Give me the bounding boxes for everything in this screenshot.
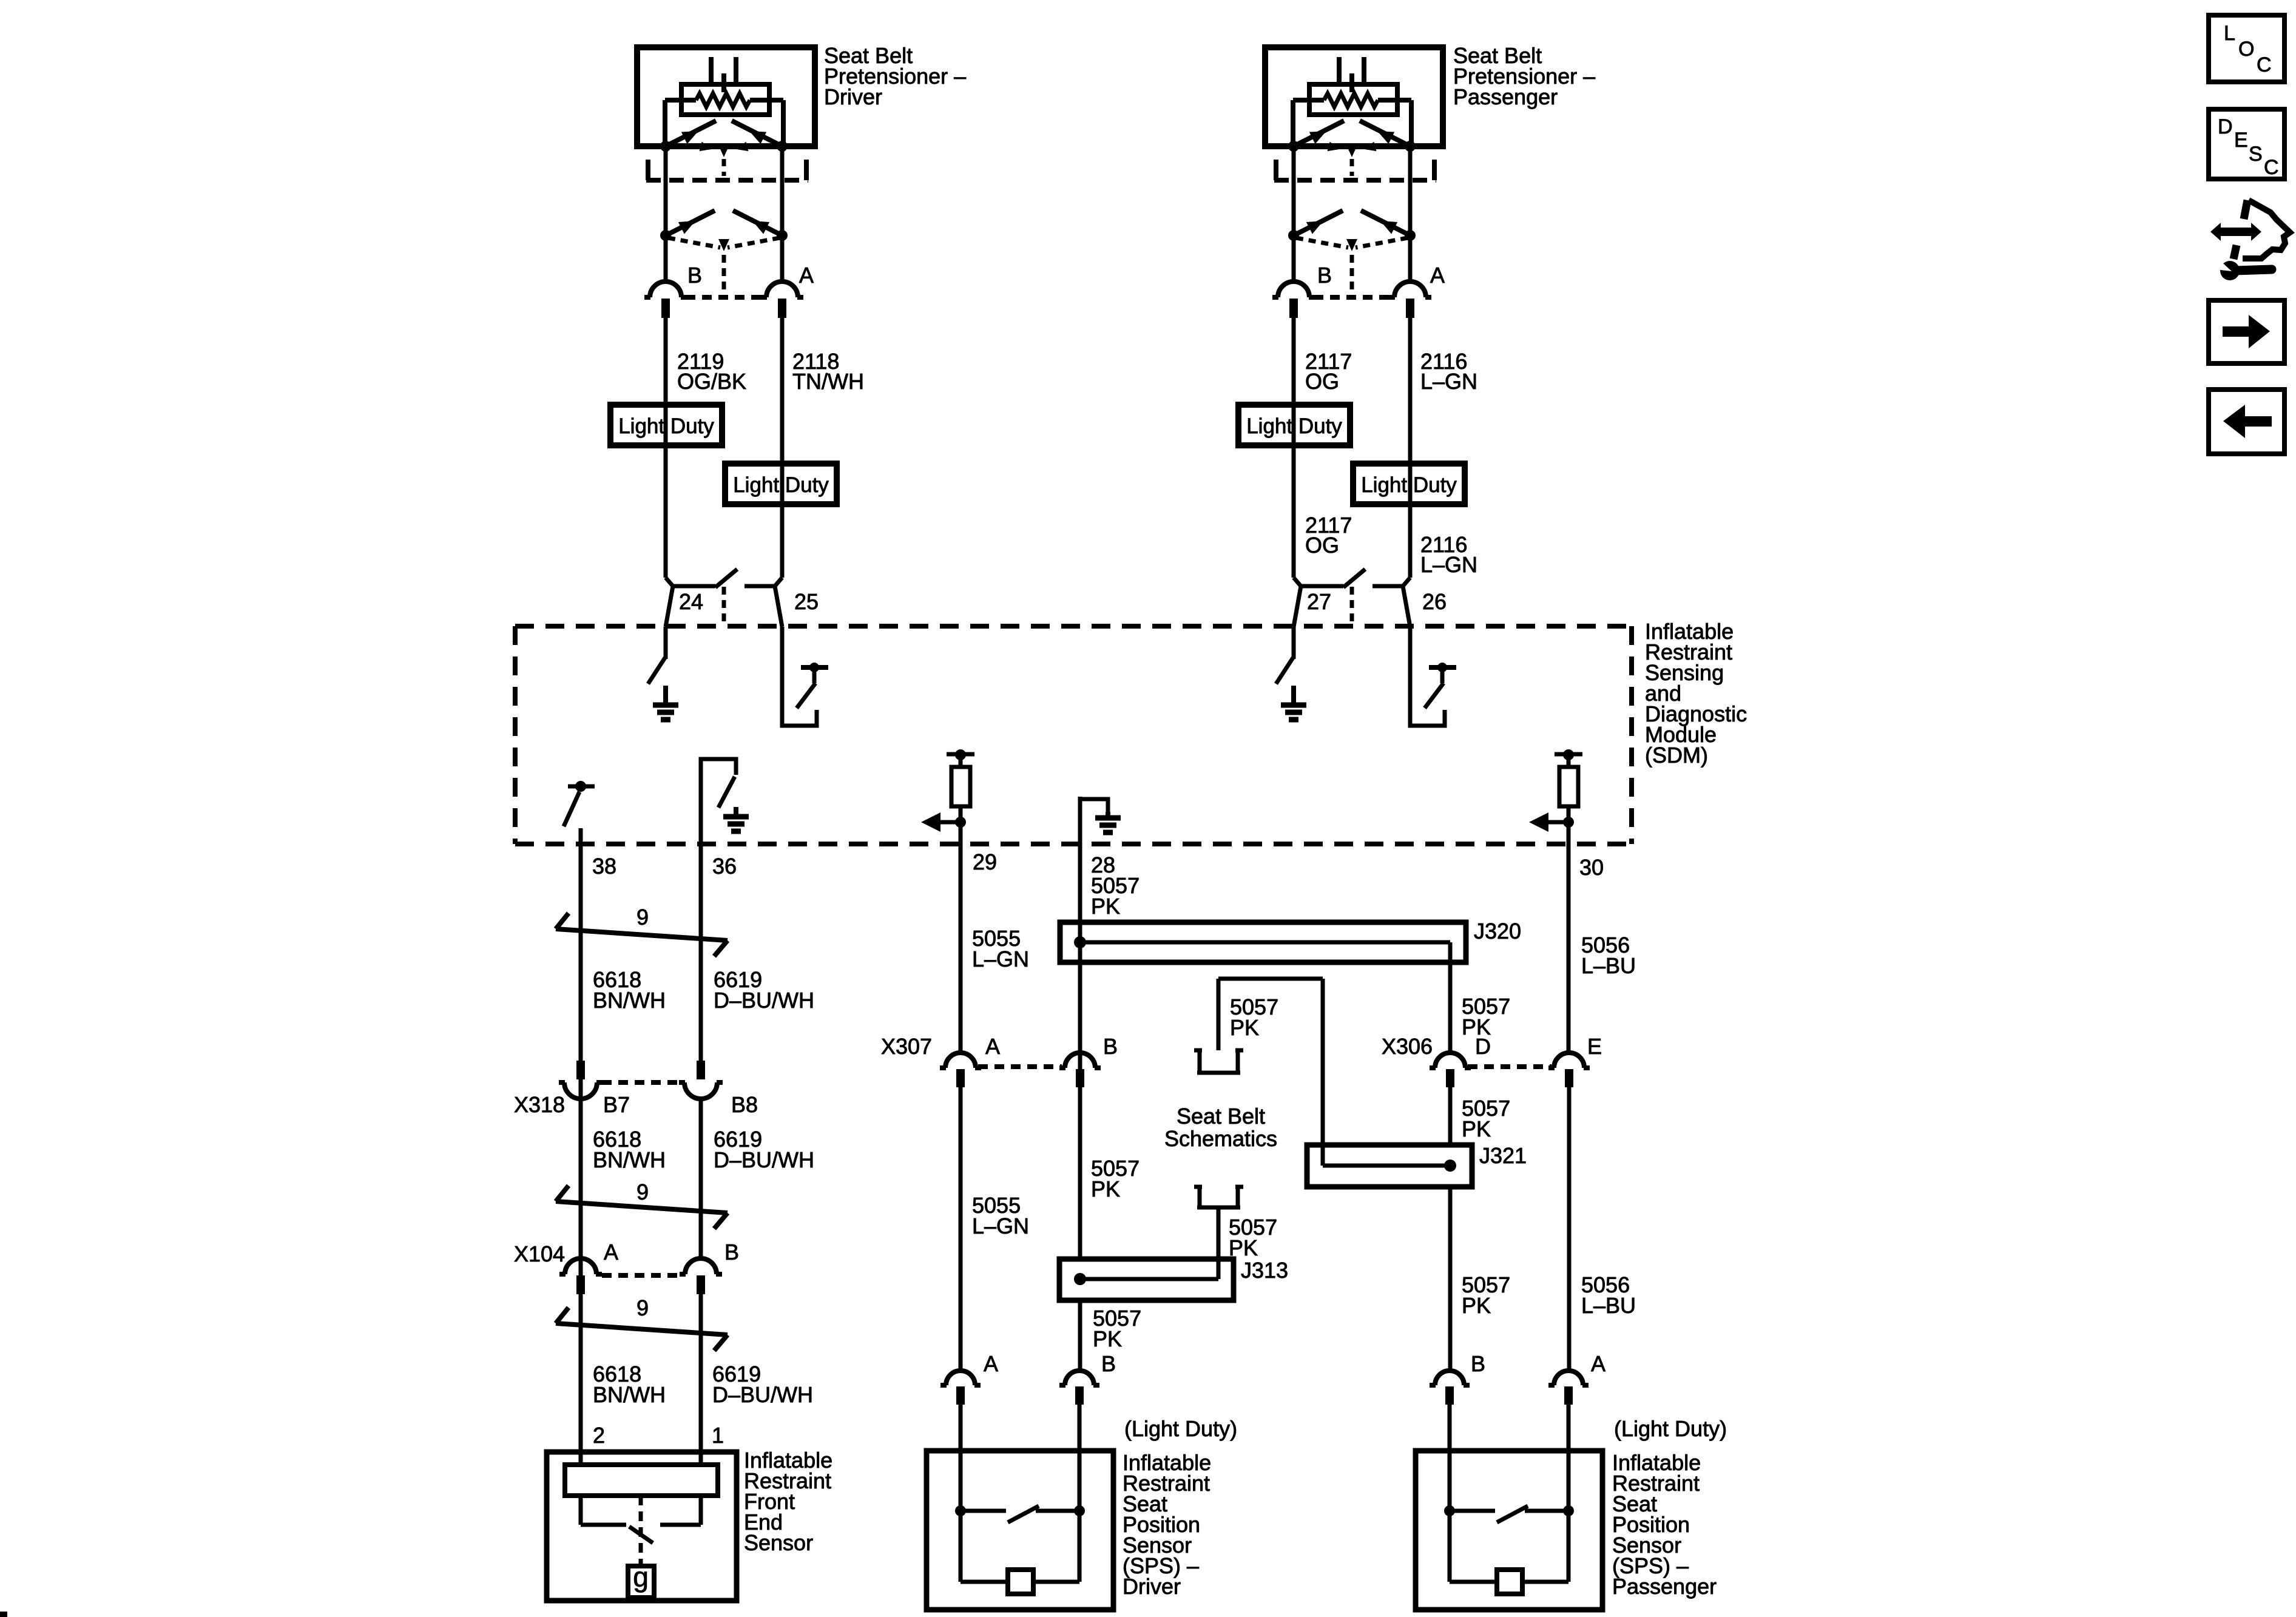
svg-text:TN/WH: TN/WH	[792, 369, 864, 394]
svg-text:9: 9	[636, 1180, 649, 1204]
svg-text:L–GN: L–GN	[972, 1214, 1029, 1238]
svg-text:B: B	[1103, 1034, 1118, 1059]
svg-text:A: A	[604, 1240, 618, 1264]
svg-text:B7: B7	[603, 1092, 630, 1117]
svg-text:Light Duty: Light Duty	[1246, 414, 1342, 438]
svg-text:C: C	[2264, 156, 2279, 179]
svg-text:Seat Belt: Seat Belt	[1177, 1104, 1265, 1129]
svg-text:J321: J321	[1479, 1143, 1527, 1168]
svg-text:O: O	[2238, 38, 2254, 61]
svg-text:D–BU/WH: D–BU/WH	[714, 1147, 814, 1172]
svg-text:J320: J320	[1474, 919, 1521, 944]
svg-text:(SDM): (SDM)	[1645, 743, 1708, 768]
svg-text:E: E	[2234, 129, 2248, 152]
svg-text:BN/WH: BN/WH	[593, 1382, 666, 1407]
svg-text:2: 2	[593, 1423, 605, 1448]
svg-text:E: E	[1587, 1034, 1602, 1059]
svg-text:PK: PK	[1093, 1326, 1122, 1351]
svg-text:Passenger: Passenger	[1453, 84, 1558, 109]
svg-text:S: S	[2249, 143, 2263, 166]
svg-text:Light Duty: Light Duty	[618, 414, 714, 438]
svg-text:L–GN: L–GN	[1420, 369, 1477, 394]
svg-text:L–BU: L–BU	[1581, 1293, 1636, 1318]
svg-text:PK: PK	[1091, 894, 1120, 919]
svg-text:C: C	[2257, 53, 2272, 76]
svg-text:g: g	[633, 1561, 649, 1593]
svg-text:PK: PK	[1091, 1176, 1120, 1201]
svg-text:26: 26	[1422, 589, 1447, 614]
svg-text:OG/BK: OG/BK	[677, 369, 746, 394]
svg-text:B: B	[1471, 1351, 1485, 1376]
svg-text:OG: OG	[1305, 369, 1339, 394]
svg-text:OG: OG	[1305, 533, 1339, 558]
svg-text:(Light Duty): (Light Duty)	[1124, 1416, 1237, 1441]
svg-text:36: 36	[712, 854, 737, 879]
svg-text:A: A	[799, 263, 814, 288]
svg-text:X307: X307	[881, 1034, 932, 1059]
svg-text:B: B	[1101, 1351, 1116, 1376]
svg-text:Driver: Driver	[824, 84, 882, 109]
svg-text:D: D	[2218, 115, 2233, 138]
svg-text:24: 24	[679, 589, 703, 614]
svg-text:B8: B8	[731, 1092, 758, 1117]
svg-text:Passenger: Passenger	[1612, 1574, 1717, 1599]
svg-text:A: A	[985, 1034, 1000, 1059]
svg-text:Schematics: Schematics	[1164, 1126, 1277, 1151]
svg-text:D–BU/WH: D–BU/WH	[714, 988, 814, 1013]
svg-text:25: 25	[794, 589, 819, 614]
svg-text:L–GN: L–GN	[1420, 552, 1477, 577]
svg-text:PK: PK	[1462, 1116, 1491, 1141]
svg-text:X318: X318	[514, 1092, 565, 1117]
svg-text:A: A	[1430, 263, 1445, 288]
svg-text:Light Duty: Light Duty	[733, 473, 829, 497]
svg-text:PK: PK	[1230, 1015, 1259, 1040]
svg-text:9: 9	[636, 905, 649, 930]
svg-text:D–BU/WH: D–BU/WH	[712, 1382, 813, 1407]
svg-text:L–BU: L–BU	[1581, 953, 1636, 978]
svg-text:Sensor: Sensor	[744, 1530, 813, 1555]
svg-text:1: 1	[712, 1423, 724, 1448]
svg-text:Light Duty: Light Duty	[1361, 473, 1457, 497]
svg-text:A: A	[984, 1351, 998, 1376]
svg-text:38: 38	[592, 854, 616, 879]
svg-text:L–GN: L–GN	[972, 947, 1029, 971]
svg-text:A: A	[1591, 1351, 1606, 1376]
svg-text:29: 29	[973, 849, 997, 874]
svg-text:X104: X104	[514, 1241, 565, 1266]
svg-text:J313: J313	[1241, 1258, 1288, 1283]
svg-text:L: L	[2224, 22, 2235, 45]
svg-text:(Light Duty): (Light Duty)	[1614, 1416, 1727, 1441]
svg-text:B: B	[687, 263, 702, 288]
svg-text:BN/WH: BN/WH	[593, 1147, 666, 1172]
svg-text:PK: PK	[1462, 1014, 1491, 1039]
svg-text:30: 30	[1579, 855, 1604, 880]
svg-text:27: 27	[1307, 589, 1331, 614]
svg-text:9: 9	[636, 1295, 649, 1320]
svg-text:BN/WH: BN/WH	[593, 988, 666, 1013]
svg-text:X306: X306	[1382, 1034, 1433, 1059]
svg-text:B: B	[724, 1240, 739, 1264]
svg-text:PK: PK	[1462, 1293, 1491, 1318]
svg-text:B: B	[1317, 263, 1332, 288]
svg-text:Driver: Driver	[1123, 1574, 1181, 1599]
